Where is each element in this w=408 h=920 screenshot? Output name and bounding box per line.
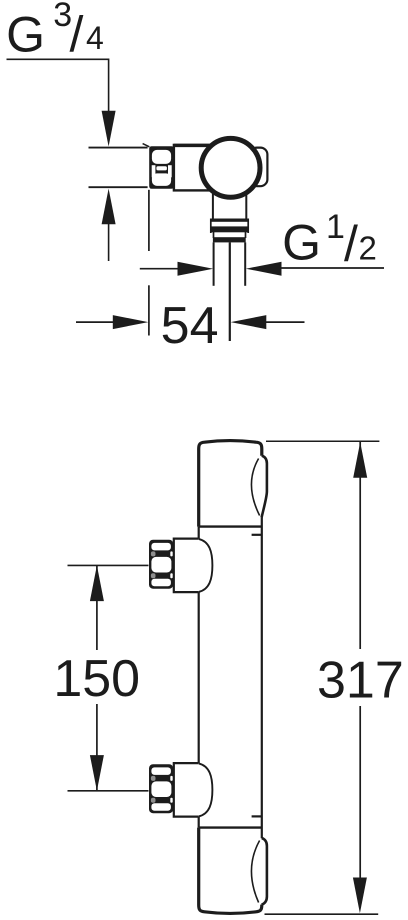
svg-text:/: / — [70, 7, 84, 63]
dimension line 317 — [359, 442, 361, 649]
sleeve tick bottom — [252, 815, 262, 817]
separation line top — [199, 525, 262, 527]
svg-text:G: G — [6, 6, 45, 62]
extension line 317 top — [266, 440, 379, 442]
arrow 150 down — [90, 755, 104, 791]
body right edge bottom piece — [261, 905, 263, 907]
hose connector bands — [210, 219, 248, 243]
svg-text:2: 2 — [359, 230, 377, 267]
pipe center line — [229, 242, 231, 341]
upper fitting hex nut — [149, 540, 173, 589]
lower fitting escutcheon dome — [199, 763, 213, 816]
pipe width arrow left — [140, 268, 179, 270]
svg-text:150: 150 — [53, 650, 140, 708]
upper fitting escutcheon dome — [199, 539, 213, 592]
inlet pipe G 3/4 — [89, 147, 148, 149]
label G 3/4 — [6, 0, 104, 63]
pipe width arrow right / G 1/2 leader — [246, 262, 282, 276]
valve body rectangle — [174, 145, 213, 191]
extension line 150 bottom — [68, 790, 149, 792]
neck below circle — [212, 193, 214, 219]
bottom shut-off knob bulge — [262, 838, 267, 905]
dimension 54 arrows — [76, 321, 114, 323]
lower fitting flange — [174, 763, 199, 817]
outlet pipe G 1/2 — [213, 242, 215, 285]
lower fitting hex nut — [149, 764, 173, 813]
svg-text:G: G — [282, 215, 321, 271]
arrow 317 down — [353, 878, 367, 914]
top shut-off knob bulge — [262, 456, 267, 518]
nut chamfer tick — [143, 144, 150, 147]
body left edge segments — [198, 527, 200, 539]
union nut G 3/4 (side view) — [149, 146, 174, 189]
svg-text:317: 317 — [317, 651, 404, 709]
arrow 317 up — [353, 442, 367, 478]
dimension line 150 — [96, 565, 98, 650]
bottom cap of body — [199, 828, 262, 914]
sleeve tick top — [252, 534, 262, 536]
extension line 150 top — [68, 564, 149, 566]
leader line G 3/4 — [7, 59, 109, 112]
body right edge — [261, 517, 263, 838]
label G 1/2 — [282, 208, 377, 272]
svg-text:1: 1 — [326, 208, 345, 246]
thermostat body circle — [201, 138, 260, 197]
separation line bottom — [199, 826, 262, 828]
extension line 317 bottom — [265, 913, 379, 915]
extension line 54 left — [148, 190, 150, 251]
top cap of body — [199, 441, 262, 527]
arrow up to pipe bottom — [102, 189, 116, 225]
cap edge bump right of circle — [250, 148, 267, 187]
upper fitting flange — [174, 539, 199, 593]
svg-text:4: 4 — [86, 20, 104, 56]
top knob inner crescent — [251, 459, 259, 516]
svg-text:54: 54 — [161, 297, 219, 355]
arrow down to pipe top — [102, 111, 116, 147]
svg-text:/: / — [344, 216, 358, 272]
bottom knob inner crescent — [251, 841, 259, 903]
arrow 150 up — [90, 565, 104, 601]
